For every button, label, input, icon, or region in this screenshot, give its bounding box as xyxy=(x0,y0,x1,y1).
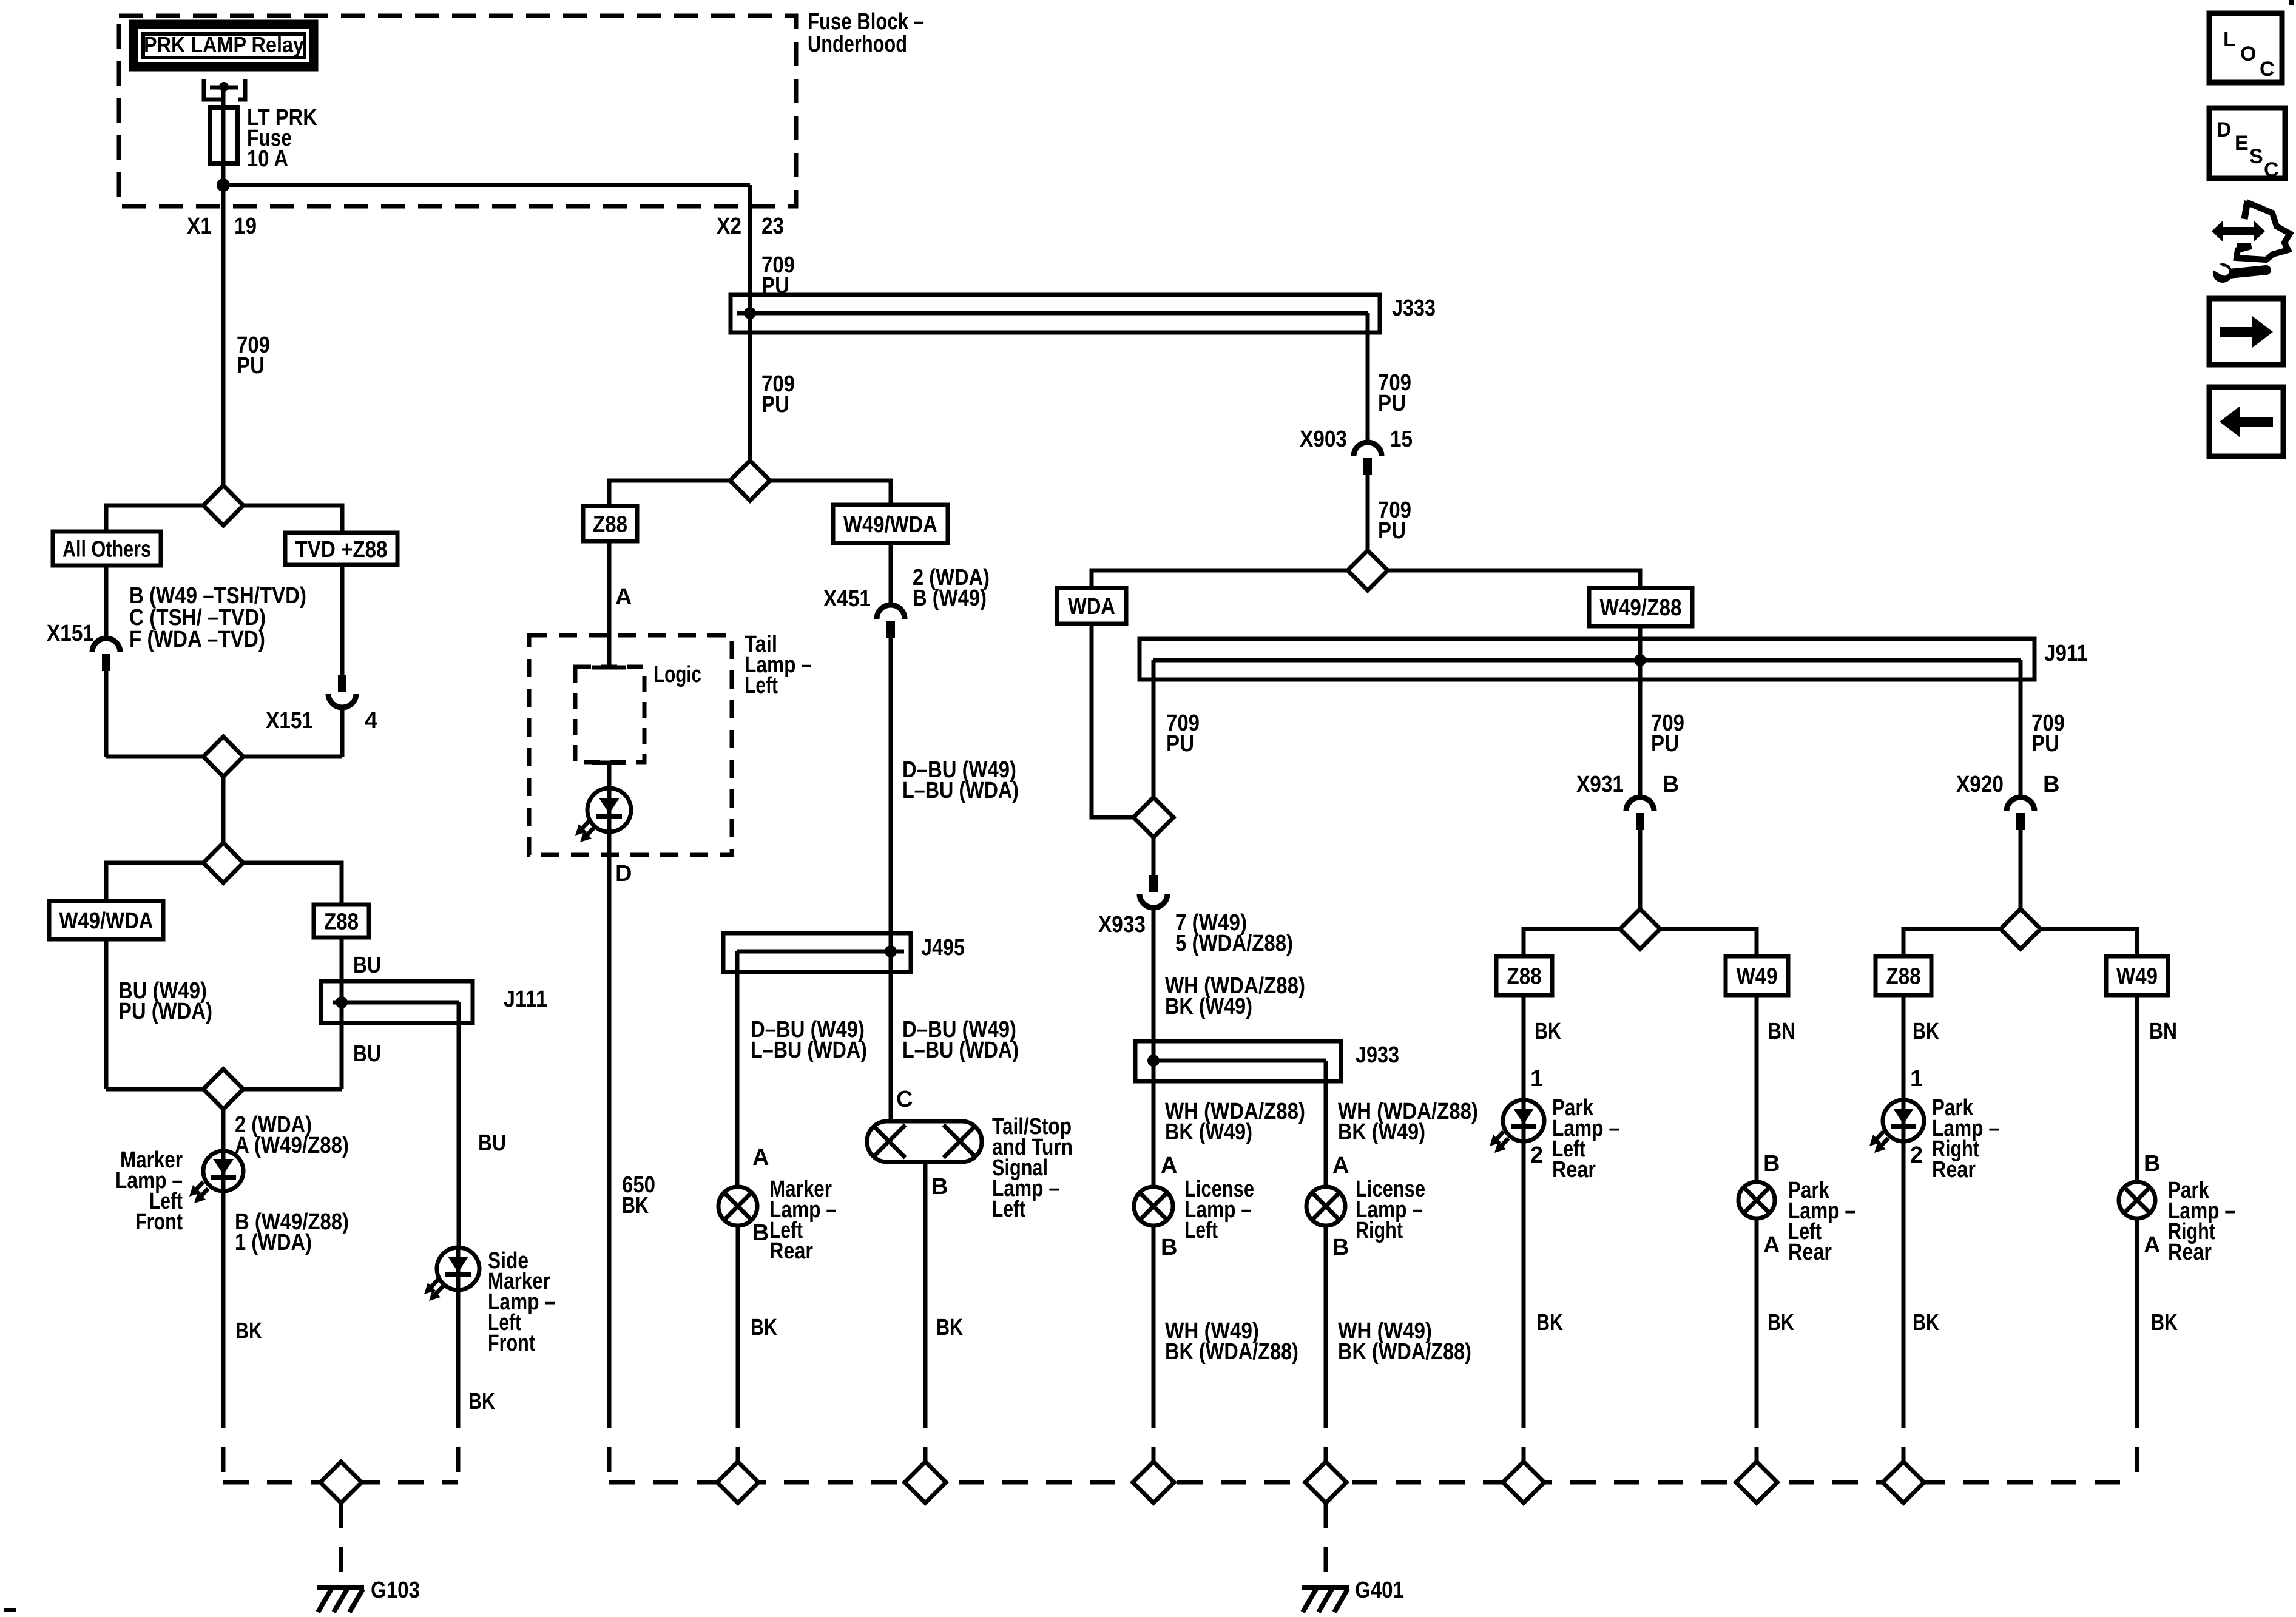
svg-text:A: A xyxy=(1161,1153,1177,1178)
svg-text:PU: PU xyxy=(1651,731,1679,757)
svg-text:PU: PU xyxy=(1378,518,1406,544)
svg-text:W49/Z88: W49/Z88 xyxy=(1600,595,1682,621)
wire license right xyxy=(1324,1081,1328,1187)
svg-text:PU: PU xyxy=(2031,731,2059,757)
wire W49/Z88 through J911 to X931 xyxy=(1638,626,1643,797)
wire 709 PU from X1 xyxy=(221,206,226,485)
wire W49 BN to park bulb LR xyxy=(1755,995,1759,1182)
svg-text:A: A xyxy=(2144,1232,2160,1258)
wire 709 PU X2 to J333 xyxy=(748,206,752,333)
svg-text:BN: BN xyxy=(1768,1019,1795,1044)
wire tail/stop to bus xyxy=(923,1162,928,1403)
wire LED down xyxy=(607,832,612,933)
lamp Marker Lamp - Left Front (LED) xyxy=(203,1151,243,1191)
svg-text:BK: BK xyxy=(1913,1019,1939,1044)
svg-text:PU: PU xyxy=(761,392,789,417)
option box Z88 tail lamp xyxy=(583,506,637,541)
splice diamond S1 xyxy=(203,485,243,525)
wire park bulb RR to bus xyxy=(2135,1218,2139,1403)
splice diamonds on G401 bus xyxy=(717,1462,758,1503)
wire marker lamp to ground bus xyxy=(221,1191,226,1403)
wire park LED RR to bus xyxy=(1902,1141,1906,1403)
svg-text:L–BU (WDA): L–BU (WDA) xyxy=(902,778,1019,803)
svg-text:BN: BN xyxy=(2149,1019,2177,1044)
wire S3 to W49/WDA xyxy=(106,863,203,901)
svg-text:Logic: Logic xyxy=(653,662,701,687)
svg-text:Left: Left xyxy=(992,1197,1025,1222)
splice diamond S4 merge xyxy=(106,1087,203,1092)
wire to Z88 right rear xyxy=(1903,929,2001,956)
svg-text:BK (WDA/Z88): BK (WDA/Z88) xyxy=(1165,1339,1298,1365)
svg-text:BK (W49): BK (W49) xyxy=(1165,1119,1252,1145)
option box Z88 park RR xyxy=(1876,956,1931,995)
lamp Tail/Stop and Turn Signal Lamp - Left xyxy=(867,1121,982,1162)
svg-text:19: 19 xyxy=(234,214,257,239)
svg-text:BK: BK xyxy=(235,1318,262,1344)
tail lamp left dashed enclosure xyxy=(529,635,732,855)
svg-text:All Others: All Others xyxy=(62,537,151,562)
svg-text:BK (WDA/Z88): BK (WDA/Z88) xyxy=(1338,1339,1471,1365)
svg-text:G401: G401 xyxy=(1355,1578,1404,1603)
svg-text:WDA: WDA xyxy=(1068,594,1115,619)
svg-text:PRK LAMP Relay: PRK LAMP Relay xyxy=(144,32,304,57)
wire license right to bus xyxy=(1324,1226,1328,1403)
fuse block underhood dashed enclosure xyxy=(119,16,796,206)
wire park LED LR to bus xyxy=(1522,1141,1526,1403)
splice diamond A xyxy=(730,461,770,501)
icon box arrow right xyxy=(2209,299,2283,365)
wire license left xyxy=(1152,1081,1156,1187)
wire logic to LED xyxy=(607,763,612,789)
junction J933 xyxy=(1135,1041,1341,1081)
svg-text:BU: BU xyxy=(353,1041,381,1067)
svg-text:Rear: Rear xyxy=(2168,1240,2212,1265)
wire S4 to marker lamp xyxy=(221,1109,226,1152)
wire to W49/WDA tail xyxy=(770,481,891,505)
lamp Park Lamp - Right Rear bulb xyxy=(2119,1182,2155,1218)
connector X151 left xyxy=(92,638,120,652)
splice diamond B xyxy=(1348,550,1388,590)
wire All Others to X151 xyxy=(104,565,109,638)
wire X903 to splice B xyxy=(1366,475,1370,550)
wire to All Others xyxy=(106,505,203,532)
ground G401 xyxy=(1302,1585,1349,1590)
svg-text:BU: BU xyxy=(353,953,381,978)
splice diamond on G103 bus xyxy=(320,1462,362,1503)
svg-text:10 A: 10 A xyxy=(247,146,288,172)
svg-text:Right: Right xyxy=(1356,1218,1403,1243)
svg-text:BK: BK xyxy=(1536,1310,1563,1335)
svg-text:J911: J911 xyxy=(2044,641,2088,666)
wire to Z88 tail xyxy=(609,481,730,506)
svg-text:Z88: Z88 xyxy=(1507,964,1542,990)
svg-text:Z88: Z88 xyxy=(593,512,627,538)
wire Z88 BK to park LED LR xyxy=(1522,995,1526,1100)
svg-text:BK (W49): BK (W49) xyxy=(1338,1119,1425,1145)
wire Z88 through J111 xyxy=(340,937,344,1089)
svg-text:2: 2 xyxy=(1530,1143,1543,1168)
svg-text:Rear: Rear xyxy=(1932,1157,1976,1183)
connector X903 pin 15 xyxy=(1354,442,1382,456)
svg-text:BK: BK xyxy=(1768,1310,1794,1335)
lamp License Lamp - Right xyxy=(1306,1187,1345,1226)
svg-text:F (WDA –TVD): F (WDA –TVD) xyxy=(129,627,265,652)
wire J333 down to splice A xyxy=(748,333,752,461)
wire 650 BK logic D to bus xyxy=(607,933,612,1403)
wire to W49/Z88 xyxy=(1388,570,1640,588)
wire to WDA xyxy=(1092,570,1348,588)
wire node to X2 branch xyxy=(223,183,750,187)
svg-text:B: B xyxy=(2144,1151,2160,1176)
wire W49/WDA down xyxy=(104,939,109,1089)
svg-text:Z88: Z88 xyxy=(324,910,359,935)
junction J495 xyxy=(723,933,911,972)
svg-text:Front: Front xyxy=(488,1331,535,1356)
relay contact xyxy=(204,79,222,100)
svg-text:TVD +Z88: TVD +Z88 xyxy=(295,537,388,562)
svg-text:BK: BK xyxy=(936,1315,963,1340)
wire relay to fuse xyxy=(221,87,226,107)
connector X933 xyxy=(1149,875,1158,892)
svg-text:PU: PU xyxy=(1378,391,1406,416)
wire TVD to X151 pin 4 xyxy=(340,565,345,675)
svg-text:Left: Left xyxy=(1184,1218,1218,1243)
svg-text:4: 4 xyxy=(365,708,377,734)
svg-text:5 (WDA/Z88): 5 (WDA/Z88) xyxy=(1175,931,1293,956)
connector X931 pin B xyxy=(1626,797,1654,811)
wire J111 branch BU to side marker xyxy=(457,1023,461,1247)
option box WDA xyxy=(1057,588,1126,624)
svg-text:BK: BK xyxy=(2151,1310,2178,1335)
svg-text:X933: X933 xyxy=(1098,912,1146,937)
icon box arrow left xyxy=(2209,387,2283,456)
wire to TVD +Z88 xyxy=(243,505,342,533)
svg-text:X903: X903 xyxy=(1300,427,1347,452)
svg-text:C: C xyxy=(896,1087,913,1112)
svg-text:B: B xyxy=(2043,772,2059,797)
svg-text:BK: BK xyxy=(751,1315,777,1340)
wire marker rear to bus xyxy=(736,1226,740,1403)
option box W49/Z88 xyxy=(1589,588,1692,626)
wire S2 to S3 xyxy=(221,777,226,843)
wire side marker to ground bus xyxy=(456,1290,461,1403)
svg-text:X1: X1 xyxy=(187,214,212,239)
svg-text:1 (WDA): 1 (WDA) xyxy=(235,1230,312,1255)
svg-text:X920: X920 xyxy=(1956,772,2004,797)
lamp Park Lamp - Left Rear (LED) xyxy=(1503,1100,1544,1141)
svg-text:BK (W49): BK (W49) xyxy=(1165,994,1252,1019)
svg-text:A: A xyxy=(1332,1153,1349,1178)
svg-text:X151: X151 xyxy=(266,708,313,734)
svg-text:L–BU (WDA): L–BU (WDA) xyxy=(751,1038,867,1063)
option box Z88 park LR xyxy=(1496,956,1552,995)
svg-text:Rear: Rear xyxy=(769,1238,813,1264)
svg-text:X2: X2 xyxy=(717,214,741,239)
svg-text:W49/WDA: W49/WDA xyxy=(843,512,937,538)
svg-text:B: B xyxy=(752,1220,769,1246)
option box W49 park LR xyxy=(1726,956,1788,995)
option box W49 park RR xyxy=(2106,956,2168,995)
wire S3 to Z88 xyxy=(243,863,342,905)
svg-text:D: D xyxy=(2217,118,2232,141)
svg-text:B: B xyxy=(1332,1235,1349,1260)
svg-text:Z88: Z88 xyxy=(1886,964,1921,990)
svg-text:Left: Left xyxy=(745,673,778,698)
wire W49 BN to park bulb RR xyxy=(2135,995,2139,1182)
junction node in fuse block xyxy=(217,178,230,192)
option box TVD +Z88 xyxy=(285,533,397,565)
option box All Others xyxy=(53,532,161,565)
svg-text:B: B xyxy=(1161,1235,1177,1260)
junction J111 xyxy=(321,981,473,1023)
svg-text:B (W49): B (W49) xyxy=(913,586,987,611)
wire X151 down xyxy=(104,671,109,757)
svg-text:X451: X451 xyxy=(823,586,871,612)
svg-text:C: C xyxy=(2260,58,2275,81)
svg-text:A: A xyxy=(615,584,632,610)
terminal bar top of logic xyxy=(592,666,626,670)
svg-text:Front: Front xyxy=(135,1209,183,1235)
splice diamond S2 merge xyxy=(106,755,203,759)
ground bus G103 dashed xyxy=(223,1480,458,1485)
icon box LOC xyxy=(2209,13,2282,83)
fuse LT PRK 10 A xyxy=(210,107,238,164)
svg-text:PU: PU xyxy=(237,353,265,379)
svg-text:Rear: Rear xyxy=(1788,1240,1832,1265)
svg-text:Rear: Rear xyxy=(1552,1157,1596,1183)
wire license left to bus xyxy=(1152,1226,1156,1403)
svg-text:B: B xyxy=(1663,772,1679,797)
wire to G103 xyxy=(339,1503,343,1582)
svg-text:O: O xyxy=(2240,42,2256,66)
svg-text:A (W49/Z88): A (W49/Z88) xyxy=(235,1133,349,1158)
wire X933 to J933 xyxy=(1152,908,1156,1081)
svg-text:W49: W49 xyxy=(1737,964,1778,990)
relay PRK LAMP Relay label box xyxy=(133,24,314,67)
option box W49/WDA tail xyxy=(833,505,948,543)
wire J911 right drop to X920 xyxy=(2019,680,2023,797)
svg-text:S: S xyxy=(2249,145,2263,168)
splice diamond D xyxy=(1620,909,1660,949)
wire J333 to X903 xyxy=(1366,333,1370,442)
page artifact bottom left xyxy=(4,1608,16,1612)
icon box DESC xyxy=(2209,108,2285,178)
wire X151-4 down xyxy=(340,707,345,757)
svg-text:A: A xyxy=(752,1145,769,1170)
wire park bulb LR to bus xyxy=(1755,1218,1759,1403)
lamp Tail Lamp LED xyxy=(587,788,631,832)
page artifact top right xyxy=(2289,0,2294,5)
svg-text:BK: BK xyxy=(1535,1019,1561,1044)
svg-text:A: A xyxy=(1763,1232,1780,1258)
connector X920 pin B xyxy=(2007,797,2034,811)
wire splice C down xyxy=(1152,837,1156,876)
svg-text:B: B xyxy=(1763,1151,1780,1176)
wire J911 left drop 709 PU xyxy=(1152,680,1156,797)
svg-text:J933: J933 xyxy=(1356,1042,1399,1068)
svg-text:1: 1 xyxy=(1530,1066,1543,1092)
wire J495 branch to marker lamp rear xyxy=(735,972,740,1187)
terminal bar bottom of logic xyxy=(592,761,626,765)
svg-text:2: 2 xyxy=(1910,1143,1923,1168)
svg-text:D: D xyxy=(615,861,632,886)
lamp Park Lamp - Right Rear (LED) xyxy=(1883,1100,1924,1141)
junction J333 xyxy=(731,295,1380,333)
lamp Side Marker Lamp - Left Front (LED) xyxy=(437,1247,479,1290)
wire X920 to splice E xyxy=(2019,830,2023,909)
svg-text:BK: BK xyxy=(468,1389,495,1414)
svg-text:J333: J333 xyxy=(1392,295,1436,321)
svg-text:Fuse Block –: Fuse Block – xyxy=(808,9,924,35)
wire X451 down to J495 xyxy=(889,638,893,972)
svg-text:C: C xyxy=(2264,158,2279,181)
svg-text:BK: BK xyxy=(1913,1310,1939,1335)
junction J911 xyxy=(1140,639,2034,680)
svg-text:X931: X931 xyxy=(1576,772,1624,797)
connector X151 pin 4 xyxy=(338,675,346,692)
wire to W49 right rear xyxy=(2041,929,2137,956)
svg-text:PU: PU xyxy=(1166,731,1194,757)
svg-text:BK: BK xyxy=(622,1193,649,1218)
ground bus G401 dashed xyxy=(609,1480,2137,1485)
svg-text:G103: G103 xyxy=(371,1578,420,1603)
ground G103 xyxy=(317,1585,364,1590)
svg-text:J111: J111 xyxy=(504,987,547,1012)
lamp Park Lamp - Left Rear bulb xyxy=(1738,1182,1775,1218)
svg-text:X151: X151 xyxy=(47,621,94,646)
svg-text:E: E xyxy=(2235,132,2249,155)
svg-text:1: 1 xyxy=(1910,1066,1923,1092)
splice diamond S3 xyxy=(203,843,243,883)
svg-text:Underhood: Underhood xyxy=(808,32,907,57)
wire Z88 to logic module xyxy=(607,541,612,667)
svg-text:W49/WDA: W49/WDA xyxy=(59,908,154,934)
splice diamond C xyxy=(1133,797,1173,837)
svg-text:23: 23 xyxy=(761,214,784,239)
svg-text:BU: BU xyxy=(478,1130,506,1156)
lamp License Lamp - Left xyxy=(1134,1187,1173,1226)
wire to W49 left rear xyxy=(1660,929,1757,956)
svg-text:L: L xyxy=(2223,28,2236,51)
lamp Marker Lamp - Left Rear xyxy=(718,1187,757,1226)
svg-text:15: 15 xyxy=(1390,427,1413,452)
wire J495 through down xyxy=(889,972,893,1121)
wire WDA down to splice C xyxy=(1092,624,1133,817)
wire to G401 xyxy=(1324,1503,1328,1582)
wire fuse to node xyxy=(221,164,226,206)
svg-text:PU (WDA): PU (WDA) xyxy=(118,999,212,1024)
svg-text:W49: W49 xyxy=(2116,964,2158,990)
option box Z88 xyxy=(314,905,369,937)
svg-text:L–BU (WDA): L–BU (WDA) xyxy=(902,1038,1019,1063)
connector X451 xyxy=(889,543,893,605)
wire X931 to splice D xyxy=(1638,830,1643,909)
logic dashed box xyxy=(575,667,644,762)
option box W49/WDA xyxy=(49,901,163,939)
splice diamond E xyxy=(2001,909,2041,949)
wire Z88 BK to park LED RR xyxy=(1902,995,1906,1100)
icon diagnostic connector with wrench xyxy=(2244,201,2247,219)
wire to Z88 left rear xyxy=(1524,929,1620,956)
svg-text:J495: J495 xyxy=(921,935,965,960)
svg-text:B: B xyxy=(931,1174,948,1200)
